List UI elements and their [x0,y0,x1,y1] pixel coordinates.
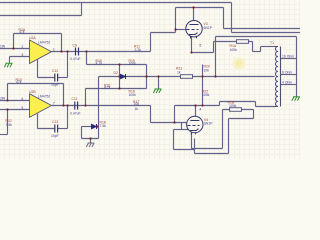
wire left step vertical [81,3,83,16]
wire V4 grid box vertical [181,123,183,130]
diode D3 [92,124,97,129]
wire ground tap T [158,77,160,89]
wire T1 tap 4 ohm [281,84,297,86]
wire V3 cathode up [213,42,215,53]
junction J10 at (119.5,64.5) [118,63,120,65]
wire U2A output [52,51,151,53]
wire nest line3 horizontal [216,36,297,38]
wire R1A step down [252,42,254,52]
svg-text:100k: 100k [129,61,137,65]
wire nest line1 horizontal [224,28,301,30]
junction J3 at (86.5,51.5) [85,50,87,52]
svg-text:100k: 100k [202,93,210,97]
svg-text:2IN: 2IN [0,97,6,101]
wire T1 tap 8 ohm [281,74,297,76]
wire nest line2 horizontal [232,32,301,34]
junction J23 at (175.5,29.5) [174,28,176,30]
wire top rail [0,2,232,4]
svg-text:6N1P: 6N1P [204,26,213,30]
ground earth G2 [153,89,161,93]
junction J19 at (90.5,138.5) [89,137,91,139]
wire speaker return vertical [296,37,298,97]
wire V3 grid stub [176,29,186,31]
wire resistor ladder left vertical [119,65,121,89]
svg-text:C13: C13 [52,120,58,124]
wire bottom rail to U2B output [85,89,87,106]
ground G4 power [86,143,94,147]
wire into T1 bottom [256,106,275,108]
wire nest line1 vertical [223,8,225,29]
junction J2 at (61.5,51.5) [60,50,62,52]
ground earth G1 [4,63,12,67]
svg-text:100k: 100k [229,104,237,108]
wire V4 box left [173,130,175,150]
diode D2 [121,74,126,79]
wire D3 node down to ground [90,139,92,143]
svg-text:1k: 1k [177,70,181,74]
wire V4 box bottom [174,149,195,151]
capacitor C11 plates [75,102,78,110]
svg-text:1k: 1k [135,107,139,111]
wire U2A feedback left [13,34,15,49]
svg-text:T1: T1 [270,41,274,45]
wire U2B feedback right [63,84,65,106]
svg-text:16 Ohm: 16 Ohm [282,55,294,59]
wire C12 bottom left [38,77,55,79]
wire R1B step left [229,118,254,120]
tube V3 [186,21,202,39]
svg-text:10k: 10k [204,68,210,72]
wire U2B output [52,105,151,107]
wire U2A input minus [0,48,30,50]
svg-text:7.5k: 7.5k [6,123,13,127]
svg-text:C9: C9 [73,44,77,48]
wire into T1 top [261,46,275,48]
wire jog up to T1 top [260,47,262,52]
wire mid rail corner vertical [98,77,100,139]
wire middle mid rail [99,76,275,78]
wire U2B input minus [0,100,30,102]
svg-text:C11: C11 [72,97,78,101]
junction J18 at (97.5,126.5) [96,125,98,127]
resistor R1A body [237,40,249,44]
wire C12 bottom right [58,77,68,79]
svg-text:U2B: U2B [29,90,36,94]
svg-text:100k: 100k [129,93,137,97]
svg-text:7: 7 [53,102,55,106]
wire V4 leg down [194,139,196,154]
wire output corner to V4 grid [150,106,152,123]
junction J11 at (119.5,76.5) [118,75,120,77]
junction J8 at (63.5,105.5) [62,104,64,106]
capacitor C9 plates [55,48,79,133]
wire resistor ladder right vertical [146,65,148,89]
wire V4 box top [174,129,189,131]
wire C13 bottom right [58,128,68,130]
wire R1A step right [253,51,261,53]
svg-text:1: 1 [53,48,55,52]
junction J6 at (7.5,100.5) [6,99,8,101]
wire U2A feedback right [61,34,63,52]
wire U2A input plus [10,56,30,58]
resistor R1B body [230,108,242,112]
wire D3 loop left [81,127,83,139]
svg-text:10pF: 10pF [51,83,59,87]
wire R1B step down [253,110,255,119]
capacitor C13 plates [55,125,58,133]
svg-text:1IN: 1IN [0,45,6,49]
junction J14 at (158.5,76.5) [157,75,159,77]
junction J1 at (13.5,48.5) [12,47,14,49]
wire V3 cathode vertical [191,37,193,53]
svg-text:10pF: 10pF [51,134,59,138]
svg-text:LM4752: LM4752 [38,94,50,98]
wire V4 plate stub [195,106,197,117]
wire C13 up to output [67,106,69,129]
wire V4 cathode vertical [191,133,193,149]
wire U2B feedback top [8,83,64,85]
svg-text:7.5k: 7.5k [100,124,107,128]
wire C12 up to output [67,52,69,78]
svg-text:4.7k: 4.7k [104,85,111,89]
svg-text:100k: 100k [230,48,238,52]
wire V3 drive horizontal [151,32,176,34]
wire exit bottom left [0,134,8,136]
wire node A down [86,52,88,65]
svg-text:0.47uF: 0.47uF [70,57,81,61]
svg-text:47k: 47k [19,30,25,34]
junction J5 at (67.5,105.5) [66,104,68,106]
junction J20 at (174.5,122.5) [173,121,175,123]
svg-text:6: 6 [22,97,24,101]
junction J13 at (146.5,76.5) [145,75,147,77]
wire U2B feedback left [7,84,9,101]
wire R20 vertical [202,65,204,106]
op-amp U2B [22,90,56,117]
junction J15 at (202.5,76.5) [201,75,203,77]
wire V4 grid [151,122,187,124]
svg-text:4: 4 [200,108,202,112]
svg-text:2.2k: 2.2k [135,48,142,52]
wire T1 tap 16 ohm [281,58,297,60]
svg-text:U2A: U2A [29,36,36,40]
highlight smudge [233,58,246,70]
junction J21 at (202.5,105.5) [201,104,203,106]
tube V4 [187,116,203,134]
svg-text:4.7k: 4.7k [96,61,103,65]
resistor R21 body [181,75,193,79]
junction J22 at (195.5,105.5) [194,104,196,106]
ground earth G3 [292,97,300,101]
junction J17 at (193.5,7.5) [192,6,194,8]
wire V3 left vertical [175,8,177,33]
svg-text:8 Ohm: 8 Ohm [282,71,292,75]
wire V4 plate up [219,102,221,106]
svg-text:6N1P: 6N1P [204,122,213,126]
wire left step horizontal [0,15,82,17]
wire R1B rail [223,109,254,111]
wire nest line2 vertical [231,3,233,33]
wire U2B input plus [0,109,30,111]
wire V4 left vertical [174,106,176,123]
wire C13 left vertical [37,114,39,129]
svg-text:0.47uF: 0.47uF [70,111,81,115]
junction J9 at (85.5,105.5) [84,104,86,106]
svg-text:5: 5 [200,44,202,48]
wire D3 loop top [82,126,92,128]
junction J24 at (215.5,76.5) [214,75,216,77]
wire R1B return down [228,119,230,154]
wire T1 bottom step [255,102,257,107]
wire R12 vertical [7,110,9,135]
junction J7 at (7.5,109.5) [6,108,8,110]
transformer T1 [275,47,281,107]
wire V3 drive vertical [150,33,152,52]
junction J16 at (191.5,52.5) [190,51,192,53]
svg-text:2: 2 [22,45,24,49]
wire U2A plus to ground [9,57,11,63]
svg-text:3: 3 [22,53,24,57]
wire V4 bottom rail [195,153,229,155]
junction J4 at (67.5,51.5) [66,50,68,52]
wire C12 left vertical [37,60,39,78]
wire V4 cathode up [222,110,224,149]
wire V4 to T1 bottom horizontal [220,101,256,103]
svg-text:LM4752: LM4752 [38,41,50,45]
wire R1A rail [214,41,253,43]
svg-text:4 Ohm: 4 Ohm [282,81,292,85]
capacitor C12 plates [55,74,58,82]
wire V4 cathode horizontal [192,148,223,150]
svg-text:47k: 47k [16,80,22,84]
wire C13 bottom left [38,128,55,130]
wire V3 cathode horizontal [192,52,214,54]
op-amp U2A [22,36,56,64]
junction J12 at (119.5,88.5) [118,87,120,89]
svg-text:10k: 10k [134,102,140,106]
wire D3 loop bottom [82,138,99,140]
wire V4 plate rail [175,105,220,107]
wire middle bottom rail [86,88,147,90]
svg-text:D2: D2 [114,71,118,75]
wire V3 plate rail [176,7,224,9]
svg-text:C12: C12 [52,69,58,73]
wire U2A feedback top [14,33,62,35]
wire V3 plate stub [193,8,195,21]
wire nest line3 vertical [215,37,217,77]
svg-text:5: 5 [22,106,24,110]
wire middle top rail [87,64,147,66]
